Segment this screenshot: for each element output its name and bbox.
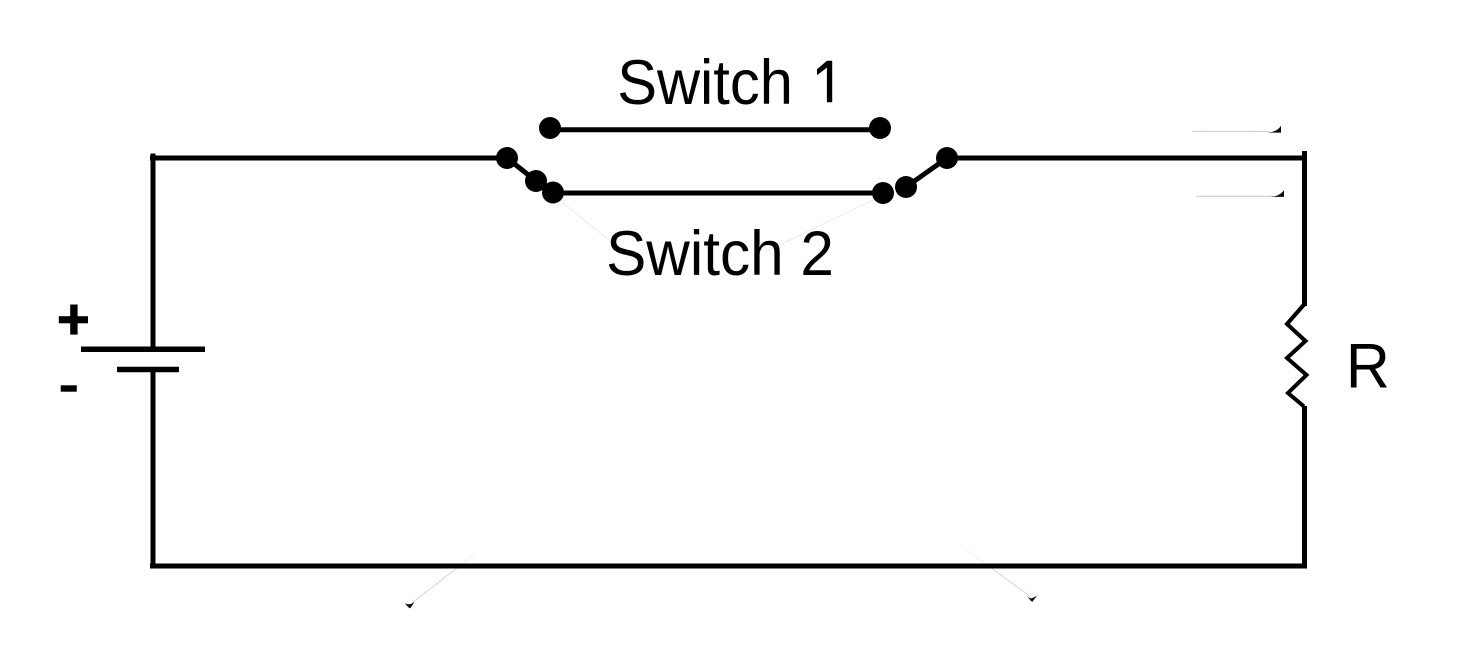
node: left switch pole dot (496, 147, 518, 169)
artifact: faint diagonal tail bottom middle-right (below wire) (990, 567, 1031, 597)
switch S2 blade (left), thrown down (507, 158, 536, 181)
battery negative plate (short) (117, 367, 179, 373)
wire: bottom horizontal (150, 564, 1307, 569)
svg-text:Switch: Switch (617, 48, 793, 118)
node: right blade tip dot (895, 176, 917, 198)
artifact: black check mark bottom left (405, 602, 415, 609)
resistor R zigzag (1287, 304, 1307, 407)
wire: left vertical, battery to bottom (151, 372, 156, 569)
battery - polarity mark (61, 385, 77, 391)
node: switch S1 left terminal dot (539, 117, 561, 139)
artifact: faint diagonal tail bottom left (above wire) (457, 554, 474, 568)
wire: right vertical, resistor to bottom (1302, 406, 1307, 569)
switch S2 blade (right), thrown down (906, 158, 947, 187)
node: switch S1 right terminal dot (869, 117, 891, 139)
svg-text:R: R (1346, 331, 1390, 401)
node: left blade tip dot (525, 170, 547, 192)
artifact: faint diagonal tail bottom left (below wire) (413, 568, 458, 603)
node: right switch pole dot (936, 147, 958, 169)
wire: right vertical, top to resistor (1302, 151, 1307, 306)
wire: top horizontal, battery to switch pole (left) (150, 156, 507, 161)
artifact: faint diagonal below right S2 contact (766, 200, 874, 252)
wire: switch S2 horizontal bar (553, 191, 883, 196)
artifact: faint diagonal below left S2 contact (561, 202, 648, 272)
artifact: black hook upper right 1 (1268, 126, 1282, 133)
battery + polarity mark (59, 305, 88, 335)
node: switch S2 left contact dot (542, 182, 564, 204)
wire: switch S1 horizontal bar (550, 127, 880, 132)
node: switch S2 right contact dot (872, 182, 894, 204)
wire: top horizontal, switch pole to resistor (right) (947, 156, 1304, 161)
artifact: black check mark bottom middle-right (1027, 595, 1037, 601)
svg-text:Switch 2: Switch 2 (606, 219, 834, 289)
artifact: faint diagonal tail bottom middle-right (above wire) (966, 550, 990, 568)
artifact: faint erased line upper right 2 (1196, 195, 1273, 197)
wire: left vertical, top to battery (151, 154, 156, 348)
artifact: black hook upper right 2 (1271, 190, 1285, 197)
artifact: faint erased line upper right 1 (1192, 130, 1270, 132)
battery positive plate (long) (81, 347, 205, 353)
